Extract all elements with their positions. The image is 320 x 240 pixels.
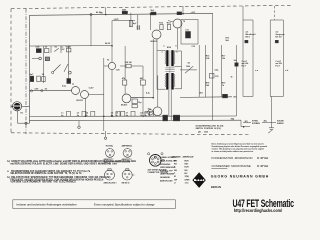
wire — drop to switch S1 xyxy=(68,46,70,78)
wire — negative feedback bus xyxy=(30,119,242,122)
wire — variant 1 bottom link xyxy=(243,96,253,98)
resistor R5 xyxy=(42,77,46,82)
wire — bias divider drop 3 xyxy=(60,46,62,53)
svg-text:SCREEN: SCREEN xyxy=(252,123,260,125)
wire — junction drop from rail xyxy=(149,14,151,30)
svg-text:U 47 fet: U 47 fet xyxy=(257,156,268,160)
wire — stub from dashed border to rail at output stage xyxy=(182,6,184,14)
svg-text:7(M): 7(M) xyxy=(185,176,190,178)
connector — 7-pin output socket xyxy=(148,153,165,166)
wire — capsule ground return xyxy=(18,122,30,124)
svg-text:C12: C12 xyxy=(192,46,195,48)
node — S1c pole circle xyxy=(51,71,53,73)
wire — sound/shield link xyxy=(262,121,276,123)
transformer BV8 — primary winding arcs upper xyxy=(164,51,167,64)
capacitor C21 on 0V bus xyxy=(82,111,86,116)
svg-text:T3: T3 xyxy=(107,60,109,62)
svg-text:SELECTED PAIRS OF IDENTICAL GA: SELECTED PAIRS OF IDENTICAL GAIN FACTOR … xyxy=(7,172,82,175)
wire — outer dashed border, bottom edge xyxy=(11,133,250,135)
wire — underline rule xyxy=(211,168,227,170)
resistor R6 1M xyxy=(126,64,131,68)
switch S2 — feedback switch diagonal xyxy=(185,66,193,73)
node — rail junction xyxy=(150,13,152,15)
svg-text:T6: T6 xyxy=(183,21,185,23)
resistor R11 xyxy=(132,99,137,104)
wire — variant 1 top link xyxy=(243,19,253,21)
wire — bias network horizontal rail xyxy=(30,45,113,47)
wire — feedback sub-box left edge xyxy=(111,21,113,46)
wire — variant 2 left drop xyxy=(269,20,271,97)
wire — junction stub xyxy=(78,121,80,126)
capacitor C6 — electrolytic, filled xyxy=(67,79,71,84)
wire — T2 collector to next stage xyxy=(89,93,104,95)
node — border feedthrough circle xyxy=(104,137,106,139)
wire — T6 emitter down to transformer xyxy=(177,28,179,50)
svg-text:+26V: +26V xyxy=(191,12,196,14)
wire — interstage rail xyxy=(131,97,153,99)
svg-text:5k6: 5k6 xyxy=(226,40,229,42)
wire — output drop to screen node xyxy=(240,120,242,126)
node — emitter junction xyxy=(152,97,154,99)
svg-text:mit REPLIZIERUNG PULSAR ELECT: mit REPLIZIERUNG PULSAR ELECTR. LINE SOW… xyxy=(7,162,111,165)
svg-text:GERMAN: GERMAN xyxy=(172,155,181,158)
capacitor C9 — coupling xyxy=(136,25,138,30)
resistor R4 — hatched xyxy=(45,57,49,61)
transformer BV8 — core bar right lower xyxy=(171,73,173,90)
wire — capsule down lead xyxy=(17,111,19,123)
svg-text:1G: 1G xyxy=(42,74,45,76)
wire — R6 left lead xyxy=(120,65,126,67)
connector — DIN socket outline left xyxy=(105,169,115,180)
capacitor C2 xyxy=(37,76,41,82)
node — junction at output rail xyxy=(182,13,184,15)
wire — symm stub xyxy=(243,122,251,124)
transistor T4 — BC413 xyxy=(122,94,131,103)
trimmer node circle xyxy=(68,71,71,74)
node — bus junction circle xyxy=(78,126,80,128)
capacitor C1 xyxy=(30,76,34,82)
capacitor C30 — electrolytic circle symbol xyxy=(148,110,153,115)
svg-text:KAPSEL-TYP: KAPSEL-TYP xyxy=(160,169,173,172)
resistor R9 xyxy=(123,80,127,85)
wire — capsule tick at border xyxy=(11,105,14,107)
svg-text:μ81 - 7234: μ81 - 7234 xyxy=(198,130,208,133)
svg-text:T1: T1 xyxy=(72,84,74,86)
resistor R14 xyxy=(167,25,170,30)
node — test point circle xyxy=(39,57,42,60)
capacitor C15 xyxy=(210,74,215,79)
wire — feedback sub-box top xyxy=(112,20,135,22)
svg-text:7(4): 7(4) xyxy=(231,118,235,121)
svg-text:VOR DEM ELEKTRONIKER BEFORE: VOR DEM ELEKTRONIKER BEFORE THE ELECTRON… xyxy=(7,182,76,184)
svg-text:M: M xyxy=(174,176,176,178)
capacitor C20 on 0V bus xyxy=(66,111,70,116)
wire — vertical feed 2 xyxy=(204,45,206,97)
resistor R21 — filled, on 24V rail xyxy=(223,94,228,98)
transformer BV8 — core bar right upper xyxy=(171,50,173,66)
capacitor — variant 2 coupling, filled xyxy=(275,40,278,43)
svg-text:SW 90 St: SW 90 St xyxy=(122,181,130,184)
transistor T3 — BC413 xyxy=(108,62,115,69)
wire — R6 right lead xyxy=(131,65,143,67)
switch S1b — low-cut switch contact xyxy=(64,64,68,72)
capacitor — variant 1 coupling, filled xyxy=(245,40,248,43)
capacitor C24 on 0V bus xyxy=(121,111,125,116)
switch S1c — pattern switch second contact xyxy=(54,65,61,72)
wire — amplifier box left edge xyxy=(29,15,31,123)
svg-text:BERLIN: BERLIN xyxy=(211,185,221,189)
resistor R13 xyxy=(160,25,163,30)
wire — R9 top to rail xyxy=(124,46,126,80)
transformer BV8 — primary winding arcs lower xyxy=(164,74,167,87)
wire — bias divider drop 1 xyxy=(42,46,44,83)
svg-text:BC413: BC413 xyxy=(151,40,158,43)
wire — outer microphone-body dashed border, top edge xyxy=(11,5,293,8)
capacitor C29 — electrolytic filled xyxy=(173,115,179,121)
wire — variant 2 top link xyxy=(270,19,283,21)
wire — secondary bottom lead xyxy=(174,88,181,90)
svg-text:Errors excepted. Specification: Errors excepted. Specifications subject … xyxy=(94,203,155,207)
wire — T6 base link xyxy=(168,21,173,22)
wire — variant 2 top dashes xyxy=(274,6,276,20)
wire — T2 emitter down to bus xyxy=(84,99,86,117)
transformer BV8 — core bar left upper xyxy=(166,50,168,66)
svg-text:UBERTRAGER: UBERTRAGER xyxy=(160,173,175,176)
resistor R7 — on supply rail, filled xyxy=(122,11,127,14)
svg-text:ANSCHLUSS 1: ANSCHLUSS 1 xyxy=(104,181,117,184)
svg-text:KK: KK xyxy=(174,164,177,166)
svg-text:NG: NG xyxy=(185,170,188,172)
svg-text:ANSCHLUSS: ANSCHLUSS xyxy=(160,179,173,182)
svg-text:C15: C15 xyxy=(215,76,218,78)
svg-text:S2: S2 xyxy=(188,63,190,65)
wire — variant 2 right drop xyxy=(282,20,284,97)
wire — divider drop to rail node xyxy=(90,14,92,46)
svg-text:BV 107: BV 107 xyxy=(276,36,282,38)
capacitor C11 — electrolytic filled xyxy=(186,32,191,39)
wire — secondary top lead xyxy=(174,50,181,52)
wire — capsule to amplifier input xyxy=(22,105,30,107)
wire — T5 emitter down xyxy=(152,39,154,98)
node — junction on bias rail xyxy=(111,45,113,47)
resistor R3 xyxy=(67,48,71,52)
transistor T7 — BC413 xyxy=(153,107,162,116)
resistor R15 — on rail, filled xyxy=(177,12,182,15)
wire — screen link xyxy=(241,126,250,128)
wire — node stub xyxy=(32,58,39,60)
wire — vertical feed 4 xyxy=(236,45,238,116)
capacitor C23 on 0V bus xyxy=(116,111,120,116)
wire — FET stage rail at 90V node xyxy=(30,89,72,91)
svg-text:BV 8: BV 8 xyxy=(246,36,250,38)
svg-text:ELR: ELR xyxy=(185,167,190,169)
node — supply junction xyxy=(90,13,92,15)
svg-text:2(1): 2(1) xyxy=(264,121,268,123)
transformer BV8 — secondary winding arcs lower xyxy=(173,74,176,87)
svg-text:AMPHENOL: AMPHENOL xyxy=(122,145,134,148)
svg-text:CONDENSER MICROPHONE: CONDENSER MICROPHONE xyxy=(212,164,251,168)
svg-text:Par.7: Par.7 xyxy=(276,65,280,68)
wire — T3 base feed xyxy=(104,65,108,67)
svg-text:5: 5 xyxy=(164,45,165,47)
connector — DIN socket outline right xyxy=(122,169,134,180)
wire — drop from rail to R8 xyxy=(130,13,132,27)
resistor R1 xyxy=(36,49,41,53)
svg-text:BC413: BC413 xyxy=(77,99,84,102)
svg-text:SWITCH POSITION S2 (V2): SWITCH POSITION S2 (V2) xyxy=(196,128,221,130)
wire — bias divider drop 2 xyxy=(50,46,52,53)
svg-text:KONDENSATOR -MIKROPHON: KONDENSATOR -MIKROPHON xyxy=(212,156,253,160)
svg-text:U 47 fet: U 47 fet xyxy=(257,164,268,168)
svg-text:Irrtümer und technische Änderu: Irrtümer und technische Änderungen vorbe… xyxy=(17,203,77,207)
wire — primary bottom lead xyxy=(157,88,166,90)
svg-text:100M: 100M xyxy=(66,46,71,48)
capacitor C17 — on output line xyxy=(235,63,238,66)
transformer BV8 — secondary winding arcs upper xyxy=(173,51,176,64)
wire — stub through dashed border xyxy=(105,131,107,137)
wire — 0V bus xyxy=(30,115,237,117)
svg-text:24,3V: 24,3V xyxy=(105,42,111,45)
svg-text:AMERICAN: AMERICAN xyxy=(183,155,194,158)
wire — variant 2 bottom link xyxy=(270,96,283,98)
wire — primary top lead xyxy=(157,50,166,52)
resistor R12 — on rail, filled xyxy=(151,12,156,15)
transformer BV8 — core bar left lower xyxy=(166,73,168,90)
svg-text:5k6: 5k6 xyxy=(206,85,209,87)
wire — variant 1 left drop xyxy=(242,6,244,97)
wire — transformer tap 2 down xyxy=(170,90,172,121)
capsule K1 — condenser capsule symbol xyxy=(13,102,22,111)
capacitor C22 on 0V bus xyxy=(91,111,95,116)
logo — Neumann diamond xyxy=(192,172,205,188)
svg-text:2k2: 2k2 xyxy=(200,93,203,95)
wire — R9 down to T4 base xyxy=(124,85,126,94)
transformer BV8 — core centre line xyxy=(169,50,171,89)
wire — C9 feed xyxy=(137,15,139,25)
feedback box outline xyxy=(181,20,198,45)
wire — long vertical collector line xyxy=(103,58,105,131)
wire — T3 emitter down xyxy=(111,70,113,117)
resistor R10 xyxy=(141,80,146,85)
transistor T5 — BC413 driver xyxy=(152,30,161,39)
wire — secondary mid tap xyxy=(174,65,181,67)
svg-text:BC413: BC413 xyxy=(121,104,128,107)
wire — +26V top supply rail xyxy=(30,13,213,15)
capacitor C26 on 0V bus xyxy=(145,111,149,116)
connector — Tuchel plug view xyxy=(106,148,115,157)
svg-text:6: 6 xyxy=(176,45,177,47)
svg-text:Par.7: Par.7 xyxy=(242,65,246,68)
svg-text:GR: GR xyxy=(174,179,178,181)
wire — T3 collector up xyxy=(111,46,113,62)
wire — T7 collector up xyxy=(157,75,159,107)
capacitor C27 on 0V bus xyxy=(150,111,154,116)
transformer BV8 — centre hatch lines xyxy=(165,67,174,69)
svg-text:http://recordinghacks.com/: http://recordinghacks.com/ xyxy=(234,208,283,213)
wire — R10 top xyxy=(142,66,144,80)
node — gate node circle xyxy=(30,90,32,92)
svg-text:or shown to third parties with: or shown to third parties without our pe… xyxy=(212,150,254,153)
node — bus junction dots xyxy=(103,116,105,118)
transistor T6 — output BC303 xyxy=(173,19,182,28)
wire — transformer tap down to 0V bus xyxy=(168,90,170,116)
wire — secondary link vertical xyxy=(181,51,183,89)
svg-text:1G: 1G xyxy=(45,89,48,91)
resistor R2 xyxy=(45,49,49,53)
node — junction at rail crossing xyxy=(105,14,107,16)
node — screen junction xyxy=(243,126,245,128)
svg-text:GEHAUSE: GEHAUSE xyxy=(160,176,171,179)
wire — 24V rail to output stage xyxy=(180,96,232,99)
switch S1 — pattern switch contact xyxy=(54,48,58,51)
wire — R10 down xyxy=(142,85,144,116)
svg-text:PIN VIEW: PIN VIEW xyxy=(108,164,117,166)
wire — feedback branch horizontal xyxy=(180,69,197,71)
wire — stub from dashed border to rail xyxy=(105,7,107,14)
capacitor C25 on 0V bus xyxy=(131,111,135,116)
transistor T1 — FET 2N3819 xyxy=(72,87,80,95)
svg-text:1,07F: 1,07F xyxy=(114,19,120,21)
capacitor C28 — electrolytic filled xyxy=(163,115,168,121)
wire — outer dashed border, left edge xyxy=(10,9,12,134)
svg-text:SHIELD: SHIELD xyxy=(277,123,284,125)
svg-text:NG: NG xyxy=(174,170,177,172)
svg-text:SPEISUNG: SPEISUNG xyxy=(160,164,171,166)
connector — Amphenol plug view xyxy=(123,148,132,157)
wire — vertical feed 3 xyxy=(220,45,222,97)
resistor R8 xyxy=(129,21,132,27)
svg-text:BC: BC xyxy=(185,173,188,175)
svg-text:GEORG NEUMANN GMBH: GEORG NEUMANN GMBH xyxy=(211,175,269,179)
wire — variant 2 output drop xyxy=(270,97,272,128)
wire — variant 1 right drop xyxy=(252,20,254,97)
node — gate node circle 2 xyxy=(41,90,43,92)
node — chassis connection circle on dash-dot line xyxy=(25,122,27,124)
wire — T4 collector right xyxy=(131,97,142,99)
wire — vertical feed 1 xyxy=(198,45,200,97)
ground — chassis ground symbol xyxy=(268,128,274,133)
svg-text:TUCHEL: TUCHEL xyxy=(106,146,115,148)
svg-text:GRM: GRM xyxy=(185,179,190,181)
transistor T2 — BC413 xyxy=(81,91,89,99)
wire — output line from rail xyxy=(212,13,214,120)
wire — chassis dash-dot line xyxy=(25,9,27,134)
svg-text:11,6V: 11,6V xyxy=(89,87,95,89)
wire — primary feed vertical xyxy=(156,39,158,90)
svg-text:R6 1M: R6 1M xyxy=(126,62,132,64)
capacitor C13 xyxy=(132,105,137,108)
box — errors-excepted frame xyxy=(13,200,176,209)
svg-text:1G: 1G xyxy=(45,47,48,49)
